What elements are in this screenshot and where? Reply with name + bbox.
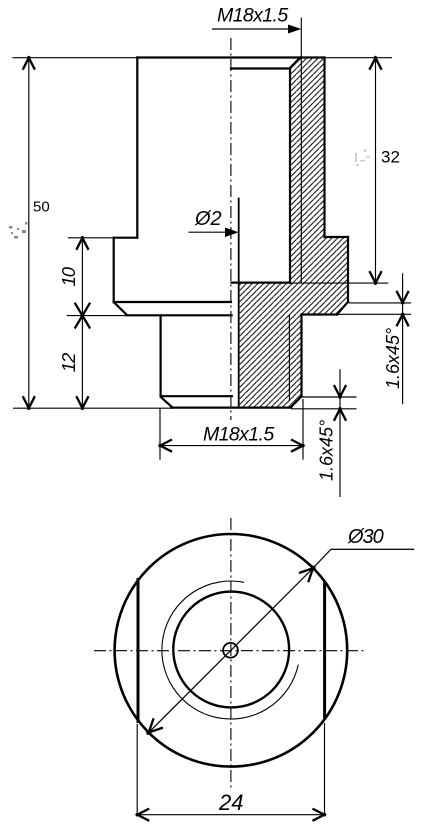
svg-text:Ø30: Ø30 (347, 526, 384, 548)
svg-text:Ø2: Ø2 (194, 208, 222, 230)
svg-text:1.6x45°: 1.6x45° (317, 420, 337, 481)
svg-text:24: 24 (218, 790, 243, 815)
svg-text:10: 10 (58, 266, 79, 286)
svg-text:50: 50 (33, 199, 50, 216)
svg-text:32: 32 (381, 148, 400, 167)
svg-text:1.6x45°: 1.6x45° (383, 328, 403, 389)
svg-text:12: 12 (58, 352, 79, 372)
svg-text:M18x1.5: M18x1.5 (203, 424, 274, 446)
svg-text:M18x1.5: M18x1.5 (217, 5, 288, 27)
